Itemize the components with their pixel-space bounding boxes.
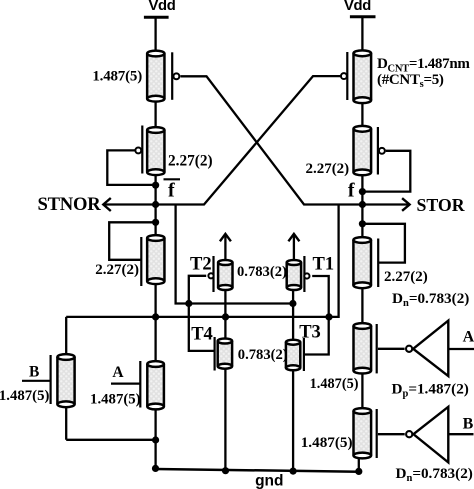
- svg-text:T4: T4: [191, 325, 213, 345]
- svg-text:f: f: [168, 179, 175, 201]
- svg-text:1.487(5): 1.487(5): [310, 376, 359, 392]
- svg-text:(#CNTs=5): (#CNTs=5): [377, 72, 444, 90]
- svg-text:1.487(5): 1.487(5): [92, 69, 142, 85]
- svg-text:A: A: [112, 364, 124, 381]
- svg-text:gnd: gnd: [255, 473, 283, 489]
- svg-text:1.487(5): 1.487(5): [90, 391, 141, 407]
- svg-text:0.783(2): 0.783(2): [237, 264, 287, 280]
- svg-text:A: A: [463, 329, 474, 346]
- svg-text:T1: T1: [313, 255, 335, 275]
- svg-text:f: f: [348, 179, 355, 201]
- svg-text:Vdd: Vdd: [344, 0, 371, 14]
- svg-text:2.27(2): 2.27(2): [305, 161, 349, 177]
- svg-text:2.27(2): 2.27(2): [168, 152, 213, 169]
- svg-text:STNOR: STNOR: [37, 194, 101, 215]
- svg-text:T3: T3: [299, 323, 321, 343]
- svg-text:Vdd: Vdd: [148, 0, 175, 14]
- svg-text:1.487(5): 1.487(5): [301, 434, 353, 451]
- svg-text:B: B: [463, 415, 474, 432]
- svg-text:1.487(5): 1.487(5): [0, 388, 49, 404]
- svg-text:0.783(2): 0.783(2): [238, 347, 288, 363]
- svg-text:Dn=0.783(2): Dn=0.783(2): [392, 290, 469, 309]
- svg-text:2.27(2): 2.27(2): [95, 262, 139, 278]
- svg-text:Dn=0.783(2): Dn=0.783(2): [396, 465, 473, 484]
- svg-text:Dp=1.487(2): Dp=1.487(2): [392, 380, 469, 399]
- svg-text:T2: T2: [190, 255, 212, 275]
- svg-text:B: B: [29, 364, 39, 381]
- svg-text:STOR: STOR: [417, 195, 465, 215]
- svg-text:2.27(2): 2.27(2): [384, 269, 428, 285]
